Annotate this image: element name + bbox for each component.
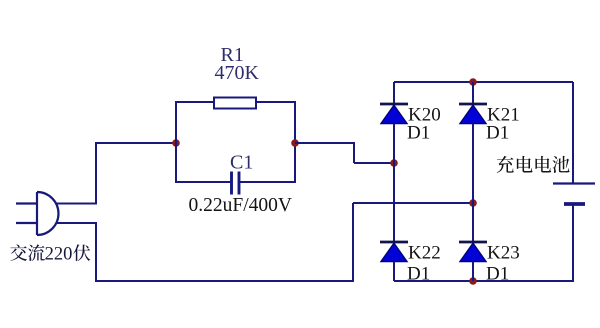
wire RC loop right vertical xyxy=(294,101,296,183)
wire vertical riser left xyxy=(95,142,97,205)
wire plug top to vertical riser xyxy=(56,203,97,205)
wire right branch top xyxy=(472,82,474,104)
wire bottom run riser xyxy=(352,203,354,282)
wire bottom rail xyxy=(394,280,573,282)
wire mid run to bridge right xyxy=(353,202,473,204)
wire battery bottom lead xyxy=(572,204,574,282)
wire to RC left node xyxy=(95,142,176,144)
svg-text:D1: D1 xyxy=(407,123,430,144)
wire RC loop left vertical xyxy=(175,101,177,183)
svg-text:C1: C1 xyxy=(230,152,253,174)
wire top rail xyxy=(394,81,573,83)
wire battery top lead xyxy=(572,82,574,183)
battery positive plate xyxy=(553,182,595,184)
svg-text:220: 220 xyxy=(45,245,73,265)
wire jog to bridge left mid xyxy=(354,162,394,164)
wire left branch bottom xyxy=(393,262,395,282)
wire jog down xyxy=(353,142,355,163)
wire RC loop top left xyxy=(175,101,214,103)
svg-text:0.22uF/400V: 0.22uF/400V xyxy=(189,195,292,216)
wire RC loop bottom right xyxy=(240,181,296,183)
wire plug bottom to left drop xyxy=(56,222,97,224)
svg-text:D1: D1 xyxy=(486,123,509,144)
diode K22 cathode bar xyxy=(380,241,408,244)
diode K23 cathode bar xyxy=(459,241,487,244)
node: bridge left mid junction xyxy=(390,159,398,167)
battery negative plate xyxy=(564,202,585,206)
node: bridge right mid junction xyxy=(469,199,477,207)
svg-text:470K: 470K xyxy=(215,62,260,84)
diode K20 cathode bar xyxy=(380,103,408,106)
wire RC loop bottom left xyxy=(175,181,231,183)
diode K22 xyxy=(381,243,407,261)
diode K20 xyxy=(381,105,407,123)
node: top rail junction xyxy=(469,78,477,86)
wire left branch top xyxy=(393,82,395,104)
node: bottom rail junction xyxy=(469,277,477,285)
capacitor C1 xyxy=(232,172,240,195)
wire bottom run xyxy=(95,280,353,282)
resistor R1 xyxy=(214,98,256,109)
node: RC left junction xyxy=(172,139,180,147)
wire RC right node to jog xyxy=(295,142,354,144)
wire RC loop top right xyxy=(256,101,296,103)
diode K23 xyxy=(460,243,486,261)
wire right branch middle xyxy=(472,124,474,243)
svg-text:K23: K23 xyxy=(487,243,520,264)
label 交流220伏 (AC 220V) xyxy=(10,244,90,264)
AC plug xyxy=(16,192,58,235)
wire left branch middle xyxy=(393,124,395,243)
label 充电电池 (rechargeable battery) xyxy=(497,156,570,173)
wire left drop vertical xyxy=(95,222,97,281)
wire right branch bottom xyxy=(472,262,474,282)
node: RC right junction xyxy=(291,139,299,147)
diode K21 cathode bar xyxy=(459,103,487,106)
diode K21 xyxy=(460,105,486,123)
svg-text:D1: D1 xyxy=(486,264,509,285)
svg-text:K22: K22 xyxy=(408,243,441,264)
